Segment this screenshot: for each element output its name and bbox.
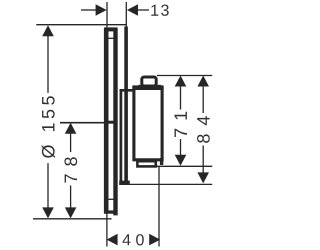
dimension 84 up arrow <box>197 76 209 87</box>
dimension 78 down arrow <box>65 207 77 218</box>
sleeve front line <box>124 27 128 183</box>
plate bottom cap <box>104 210 117 213</box>
label 78 <box>64 157 77 182</box>
label 40 <box>122 234 143 245</box>
plate top cap <box>104 27 117 31</box>
dimension 13 line right tail <box>138 9 149 11</box>
plate back edge bar <box>104 28 109 214</box>
plate front edge bar <box>113 28 117 216</box>
dimension 84 line upper <box>202 80 204 113</box>
dimension 71 line lower <box>180 139 182 161</box>
dimension 78 line upper <box>70 128 72 152</box>
label 84 <box>197 116 210 143</box>
top extension line for 71 and 84 <box>157 75 212 77</box>
extension line left of dim 40 <box>106 214 108 247</box>
dimension D155 line upper <box>47 30 49 93</box>
center line <box>60 122 117 124</box>
plate top ledge <box>107 37 114 39</box>
label 13 <box>151 5 168 16</box>
center line thick crossing <box>108 121 114 124</box>
handle body <box>134 88 162 160</box>
extension line right of dim 40 <box>158 166 160 246</box>
dimension 40 left arrow <box>107 234 118 246</box>
handle body top edge <box>132 85 163 90</box>
plate bottom ledge <box>109 198 114 200</box>
hub top line <box>120 89 135 92</box>
dimension 71 down arrow <box>175 155 187 166</box>
dimension 40 right arrow <box>149 234 160 246</box>
dimension 84 line lower <box>202 146 204 179</box>
handle bottom collar <box>137 161 155 166</box>
bottom extension line of plate <box>33 218 112 220</box>
dimension 13 right arrow <box>127 4 138 16</box>
dimension 84 down arrow <box>197 172 209 183</box>
hub left wall line <box>120 90 123 184</box>
handle cap flange <box>138 85 161 88</box>
dimension 13 left arrow <box>96 4 107 16</box>
extension line right of dim 13 <box>125 2 127 27</box>
dimension D155 line lower <box>47 163 49 214</box>
handle cap <box>142 77 156 86</box>
label 71 <box>175 112 187 137</box>
bottom bracket bar <box>119 181 130 185</box>
label D 155 <box>42 96 55 158</box>
handle body bottom right corner <box>160 158 163 165</box>
dimension 78 line lower <box>70 186 72 215</box>
dimension D155 up arrow <box>42 25 54 36</box>
bottom extension line for 71 <box>153 165 212 167</box>
bottom extension line for 84 <box>130 183 213 185</box>
dimension 78 up arrow <box>65 123 77 134</box>
top extension line of plate <box>36 24 126 26</box>
dimension 71 line upper <box>180 80 182 110</box>
dimension 71 up arrow <box>175 76 187 87</box>
extension line left of dim 13 <box>106 2 108 28</box>
dimension 13 line left tail <box>81 9 96 11</box>
dimension D155 down arrow <box>42 207 54 218</box>
